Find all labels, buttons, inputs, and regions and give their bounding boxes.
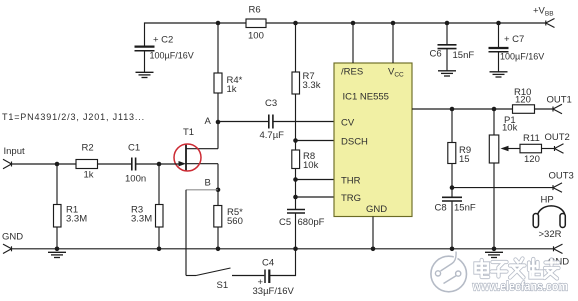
wire R7 to DSCH node (295, 94, 297, 150)
wire THR pin (296, 179, 335, 181)
IC1 NE555 body (334, 63, 412, 217)
capacitor C4 (265, 270, 269, 284)
node junction THR (293, 177, 298, 182)
wire TRG pin (296, 196, 335, 198)
transistor T1 (JFET) (179, 144, 219, 172)
wire R7 branch from rail (295, 23, 297, 72)
wire node B to switch branch (grey) (186, 189, 218, 191)
headphone icon HP (538, 206, 566, 217)
svg-text:C8: C8 (435, 203, 447, 214)
wire node A line to C3 (218, 121, 268, 123)
svg-text:/RES: /RES (341, 67, 363, 78)
svg-text:T1: T1 (183, 127, 194, 138)
wire C4 to C5 column (270, 249, 296, 276)
svg-text:C3: C3 (265, 98, 277, 109)
wire top +V rail right segment (266, 22, 546, 24)
connector OUT1 chevron (553, 104, 562, 113)
connector Input chevron (3, 159, 12, 168)
node junction rail R1 (55, 247, 60, 252)
svg-text:1k: 1k (227, 84, 237, 95)
ground below C7 (490, 72, 508, 77)
resistor R2 (76, 160, 98, 169)
node junction DSCH (293, 138, 298, 143)
svg-text:S1: S1 (217, 280, 229, 291)
wire R3 to gnd rail (158, 227, 160, 249)
wire R4 to node A (217, 93, 219, 122)
svg-text:IC1 NE555: IC1 NE555 (343, 92, 389, 103)
node junction top rail at R7 (293, 21, 298, 26)
resistor R5 (214, 206, 222, 228)
wire R3 branch (158, 164, 160, 205)
capacitor C8 (442, 197, 462, 201)
svg-text:R11: R11 (523, 133, 540, 144)
resistor R6 (246, 19, 266, 28)
node junction rail P1 (492, 247, 497, 252)
wire P1 to gnd rail (493, 163, 495, 249)
svg-text:100µF/16V: 100µF/16V (500, 52, 544, 62)
svg-text:560: 560 (227, 216, 243, 227)
switch S1 (186, 268, 264, 276)
svg-text:C1: C1 (128, 143, 140, 154)
node junction rail C8 (450, 247, 455, 252)
wire R9 to OUT3 node (451, 164, 453, 198)
wire C5 to gnd rail (295, 214, 297, 250)
svg-text:OUT1: OUT1 (547, 95, 572, 106)
resistor R9 (448, 143, 456, 164)
wire C8 to gnd rail (451, 202, 453, 250)
svg-text:C5: C5 (279, 217, 291, 228)
wire C1 to gate (136, 163, 178, 165)
ground symbol below rail at R1 (48, 252, 66, 257)
svg-text:Input: Input (4, 146, 25, 157)
node junction rail R3 (157, 247, 162, 252)
svg-text:33µF/16V: 33µF/16V (253, 286, 295, 297)
wire DSCH pin (296, 140, 335, 142)
svg-text:OUT3: OUT3 (549, 171, 574, 182)
resistor R4 (214, 73, 222, 93)
wire switch branch vertical (185, 190, 187, 276)
svg-text:100n: 100n (125, 174, 146, 185)
svg-text:OUT2: OUT2 (545, 132, 570, 143)
svg-text:10k: 10k (502, 123, 518, 134)
wire source down to node B (217, 164, 219, 190)
svg-text:3.3M: 3.3M (66, 214, 87, 225)
wire P1 branch (493, 109, 495, 135)
capacitor C3 (269, 115, 273, 129)
node junction rail IC GND (371, 247, 376, 252)
resistor R3 (156, 205, 164, 228)
svg-text:15nF: 15nF (454, 203, 476, 214)
potentiometer P1 (489, 135, 499, 163)
resistor R1 (54, 205, 62, 228)
svg-text:C6: C6 (430, 49, 442, 60)
node junction OUT at P1 (492, 107, 497, 112)
wire R9 branch (451, 109, 453, 143)
capacitor C2 (135, 47, 155, 72)
svg-text:GND: GND (366, 204, 387, 215)
capacitor C7 (489, 23, 509, 72)
node junction top rail at Vcc (391, 21, 396, 26)
svg-text:T1=PN4391/2/3, J201, J113...: T1=PN4391/2/3, J201, J113... (2, 112, 145, 122)
svg-text:1k: 1k (84, 170, 94, 181)
node junction OUT3 (450, 185, 455, 190)
node junction rail R5 (216, 247, 221, 252)
red circle around T1 (174, 144, 201, 171)
node junction input at R1 (55, 162, 60, 167)
wire GND pin (372, 217, 374, 250)
svg-text:GND: GND (2, 232, 23, 243)
node junction input at R3 (157, 162, 162, 167)
connector GND left chevron (3, 244, 12, 253)
wire node A down to drain (217, 122, 219, 149)
watermark chinese text 电子发烧友 (drawn strokes) (476, 259, 559, 279)
resistor R11 (520, 144, 542, 153)
node A (216, 120, 221, 125)
svg-text:120: 120 (515, 95, 531, 106)
svg-text:4.7µF: 4.7µF (260, 130, 285, 141)
wire /RES pin (352, 23, 354, 63)
node junction top rail at R4 (216, 21, 221, 26)
svg-text:CV: CV (341, 118, 355, 129)
node junction top rail at C6 (445, 21, 450, 26)
svg-text:R2: R2 (82, 143, 94, 154)
wire Vcc pin (392, 23, 394, 63)
connector OUT2 chevron (555, 144, 564, 153)
wire R11 to OUT2 (542, 148, 555, 150)
ground below C2 (136, 72, 154, 77)
svg-text:C4: C4 (262, 258, 274, 269)
watermark logo circle (431, 252, 467, 292)
resistor R7 (292, 72, 300, 94)
wire input line (12, 163, 77, 165)
svg-text:10k: 10k (303, 160, 319, 171)
wire GND rail (12, 248, 554, 250)
svg-text:www.elecfans.com: www.elecfans.com (472, 279, 568, 294)
node junction top rail at /RES (351, 21, 356, 26)
watermark elecfans (431, 252, 568, 294)
wire R1 branch (56, 164, 58, 205)
connector GND right chevron (554, 244, 563, 253)
wire R5 to gnd rail (217, 227, 219, 249)
resistor R8 (292, 150, 300, 169)
svg-text:15nF: 15nF (453, 50, 475, 61)
capacitor C5 (287, 210, 305, 214)
svg-text:100µF/16V: 100µF/16V (150, 51, 194, 61)
svg-text:15: 15 (459, 154, 470, 165)
svg-text:100: 100 (248, 31, 264, 42)
wire R4 branch from rail to node A (217, 23, 219, 73)
svg-text:DSCH: DSCH (341, 137, 368, 148)
wire R10 to OUT1 (535, 108, 554, 110)
svg-text:680pF: 680pF (298, 217, 325, 228)
svg-text:+ C7: + C7 (504, 34, 524, 45)
svg-text:B: B (205, 178, 211, 189)
svg-text:3.3M: 3.3M (131, 214, 152, 225)
wire OUT pin line (412, 108, 513, 110)
node junction TRG (293, 195, 298, 200)
wire node B to R5 (217, 190, 219, 206)
svg-text:+ C2: + C2 (153, 35, 173, 46)
node junction OUT at R9 (450, 107, 455, 112)
wire C3 to CV pin (273, 121, 334, 123)
connector OUT3 chevron (553, 183, 562, 192)
node junction top rail at C7 (496, 21, 501, 26)
node junction rail C5 (293, 247, 298, 252)
svg-text:HP: HP (541, 195, 554, 206)
ground symbol below rail at P1 (485, 252, 503, 257)
wiper arrow P1 (501, 146, 521, 151)
ground below C6 (438, 71, 456, 76)
wire OUT3 line (452, 187, 553, 189)
svg-text:R6: R6 (249, 5, 261, 16)
capacitor C1 (132, 158, 136, 171)
wire R2 to C1 (98, 163, 132, 165)
connector +VBB chevron (546, 19, 555, 28)
wire top +V rail left segment (145, 23, 247, 46)
svg-text:>32R: >32R (539, 229, 562, 240)
svg-text:TRG: TRG (341, 193, 361, 204)
node B (216, 188, 221, 193)
resistor R10 (513, 105, 535, 114)
capacitor C6 (438, 23, 457, 71)
svg-text:THR: THR (341, 176, 361, 187)
svg-text:120: 120 (524, 154, 540, 165)
wire R1 to gnd rail (56, 227, 58, 249)
svg-text:A: A (205, 116, 212, 127)
wire R8 to THR node (295, 169, 297, 210)
svg-text:3.3k: 3.3k (303, 80, 321, 91)
